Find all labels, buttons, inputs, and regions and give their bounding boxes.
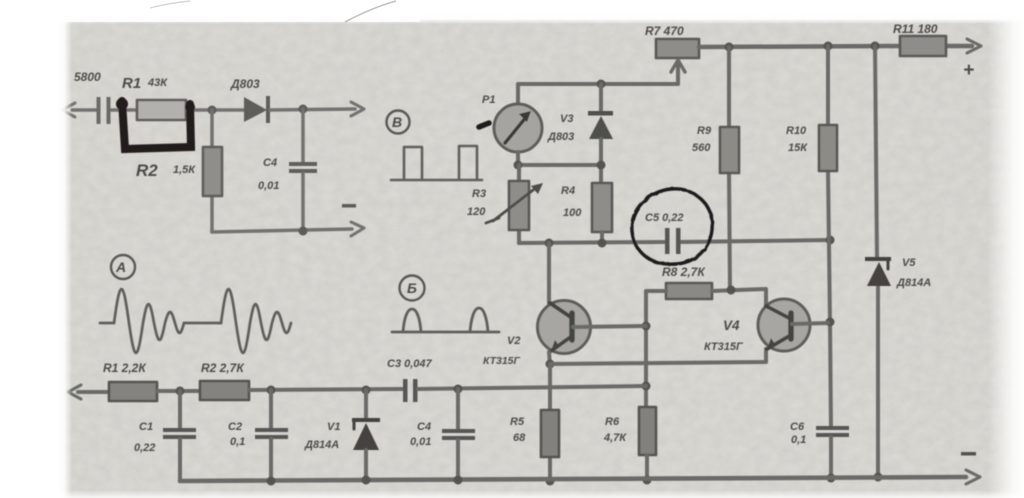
capacitor 5800 (97, 97, 101, 124)
svg-text:КТ315Г: КТ315Г (483, 355, 521, 367)
svg-text:С2: С2 (228, 421, 242, 433)
svg-text:V4: V4 (723, 318, 740, 333)
svg-text:V2: V2 (507, 335, 520, 347)
V2 base lead (573, 326, 646, 327)
wire (157, 389, 200, 393)
svg-text:КТ315Г: КТ315Г (704, 341, 744, 353)
node V5 bottom on minus rail (874, 473, 883, 482)
node V2 collector on R3-R4 bus (545, 239, 554, 248)
capacitor C1 0,22 (178, 391, 182, 429)
svg-text:Д803: Д803 (547, 131, 574, 143)
svg-text:120: 120 (467, 206, 486, 218)
emitter coupling wire (550, 349, 766, 364)
svg-text:68: 68 (513, 432, 526, 444)
WAVEFORM A (111, 255, 135, 279)
resistor R5 68 (548, 364, 552, 481)
wire R1 to diode (186, 108, 244, 112)
svg-text:R11 180: R11 180 (893, 22, 938, 36)
node C6 bottom on minus rail (827, 474, 836, 483)
svg-text:Д803: Д803 (230, 77, 260, 91)
resistor R6 4,7K (639, 407, 656, 455)
node R6 bottom on minus rail (643, 476, 652, 485)
wire input top-left (72, 108, 137, 112)
node C1 top (176, 387, 185, 396)
minus sign bottom-right (961, 452, 976, 456)
capacitor C2 0,1 (269, 390, 273, 429)
svg-text:560: 560 (692, 142, 711, 154)
svg-text:Д814А: Д814А (304, 439, 339, 451)
node V2 emitter / R5 top (546, 360, 555, 369)
marker circle around C5 (632, 189, 712, 264)
svg-text:R9: R9 (697, 125, 712, 137)
svg-text:R8 2,7К: R8 2,7К (662, 265, 706, 279)
V2 symbol (550, 303, 572, 351)
svg-text:43К: 43К (147, 77, 168, 89)
white page margins (0, 0, 58, 498)
V2 emitter down (549, 352, 550, 364)
capacitor C6 0,1 (816, 426, 849, 430)
svg-text:R2 2,7К: R2 2,7К (201, 361, 245, 375)
marker bracket under R1 (122, 101, 191, 149)
node V1 top (362, 386, 371, 395)
svg-text:R2: R2 (136, 161, 158, 180)
potentiometer R7 470 (656, 39, 699, 58)
wire C4 down (301, 173, 305, 232)
resistor R2 2,7K (200, 381, 249, 400)
wire (249, 389, 403, 390)
svg-text:С5 0,22: С5 0,22 (645, 212, 684, 224)
TRANSISTOR V2 (547, 243, 551, 303)
node C2 top (267, 386, 276, 395)
arrow left (62, 103, 75, 117)
svg-text:0,1: 0,1 (791, 434, 806, 446)
node C3 right / C4 top (454, 385, 463, 394)
node R5 bottom on minus rail (546, 477, 555, 486)
wire node to C4 (301, 109, 305, 163)
V4 base lead (792, 323, 828, 324)
svg-text:С6: С6 (790, 421, 805, 433)
svg-text:R3: R3 (472, 188, 486, 200)
node R4 bottom (598, 239, 607, 248)
resistor R1 2,2K (109, 382, 157, 401)
R8 right lead (712, 289, 766, 305)
svg-text:5800: 5800 (74, 70, 101, 84)
svg-text:R6: R6 (605, 416, 620, 428)
svg-text:0,01: 0,01 (410, 436, 431, 448)
svg-text:С4: С4 (417, 421, 431, 433)
arrow right bottom rail (351, 222, 364, 236)
bottom rail top-left (212, 229, 352, 232)
svg-text:0,1: 0,1 (230, 436, 245, 448)
node input line / R8 left branch (642, 382, 651, 391)
node C2 bottom on minus rail (267, 477, 276, 486)
svg-text:+: + (963, 60, 974, 81)
node C5 right on R10 branch (826, 236, 835, 245)
WAVEFORM Б (400, 276, 425, 301)
wire y=243 (519, 240, 830, 243)
resistor R10 15K (828, 46, 831, 427)
resistor R8 2,7K (666, 283, 712, 299)
node C4 bottom on minus rail (454, 476, 463, 485)
waveform sine bursts (100, 322, 114, 325)
svg-text:V5: V5 (902, 257, 916, 269)
waveform square pulses (391, 146, 482, 180)
capacitor C4 0,01 top-left (289, 162, 317, 166)
node V1 bottom on minus rail (362, 476, 371, 485)
meter P1 (494, 104, 542, 152)
node V4 base on R10 line (826, 318, 835, 327)
waveform half-sine bumps (392, 308, 499, 332)
diode V3 D803 (588, 111, 613, 116)
wire P1 bottom (518, 152, 601, 165)
svg-text:С3 0,047: С3 0,047 (387, 358, 433, 370)
svg-text:А: А (115, 259, 126, 275)
node R8 right / R9 bottom (727, 286, 736, 295)
svg-text:100: 100 (563, 207, 582, 219)
svg-text:С1: С1 (139, 421, 153, 433)
svg-text:0,01: 0,01 (258, 180, 279, 192)
zener V1 D814A (364, 390, 368, 418)
node top rail / R10 (824, 42, 833, 51)
capacitor C3 0,047 (403, 379, 408, 402)
svg-text:V1: V1 (327, 421, 340, 433)
svg-text:Д814А: Д814А (896, 277, 931, 289)
node V2 base / R8 left branch (642, 322, 651, 331)
capacitor C4 0,01 bottom (456, 389, 460, 429)
resistor R11 180 (900, 36, 946, 56)
svg-text:0,22: 0,22 (134, 442, 155, 454)
svg-text:Р1: Р1 (482, 94, 495, 106)
wire to V2 base branch (418, 386, 646, 389)
zener V5 D814A (865, 257, 891, 261)
svg-text:4,7К: 4,7К (603, 432, 627, 444)
node P1 bottom / R3 top (514, 161, 523, 170)
svg-text:15К: 15К (788, 142, 808, 154)
V4 symbol (766, 306, 791, 349)
R3 wiper arrow (486, 187, 537, 223)
arrow bottom-right (966, 470, 980, 484)
minus sign top-left circuit (342, 204, 356, 208)
svg-text:В: В (392, 114, 402, 130)
node V3 top wire (597, 80, 606, 89)
diode D803 top-left (244, 97, 267, 122)
arrow left bottom (68, 385, 81, 399)
node V3 anode / R4 top (597, 161, 606, 170)
svg-text:Б: Б (407, 280, 417, 296)
svg-text:R4: R4 (561, 185, 575, 197)
resistor R9 560 (729, 47, 730, 290)
wire P1 top to R7 wiper (518, 62, 678, 104)
TRANSISTOR V4 (758, 299, 810, 351)
svg-text:R1: R1 (122, 75, 141, 92)
node top rail / V5 (871, 42, 880, 51)
svg-text:С4: С4 (263, 157, 277, 169)
R8 left lead down (646, 291, 666, 407)
circled V label (387, 111, 410, 134)
marker dash annotation (479, 123, 489, 127)
resistor R3 120 (517, 165, 521, 243)
arrow top-right (967, 39, 981, 53)
junction node (299, 227, 308, 236)
R7 wiper arrow (671, 60, 685, 83)
top rail (699, 46, 972, 47)
svg-text:R1 2,2К: R1 2,2К (103, 361, 147, 375)
resistor R4 100 (592, 183, 612, 232)
node after R1 (208, 106, 217, 115)
node top rail / R9 (725, 43, 734, 52)
resistor R2 1,5K vertical (210, 110, 214, 232)
svg-text:1,5К: 1,5К (173, 164, 196, 176)
BOTTOM RAIL (180, 477, 966, 481)
arrow right top (351, 102, 364, 116)
V5 ZENER (875, 46, 878, 477)
wire diode to arrow (270, 109, 355, 110)
svg-text:V3: V3 (560, 113, 573, 125)
needle (505, 116, 527, 143)
resistor R1 43K (137, 100, 186, 120)
capacitor C5 0,22 (665, 228, 670, 254)
svg-text:R10: R10 (786, 125, 807, 137)
svg-text:R7 470: R7 470 (645, 24, 684, 38)
svg-text:R5: R5 (510, 416, 525, 428)
wire V3 top (599, 84, 603, 113)
node diode-C4 (299, 105, 308, 114)
